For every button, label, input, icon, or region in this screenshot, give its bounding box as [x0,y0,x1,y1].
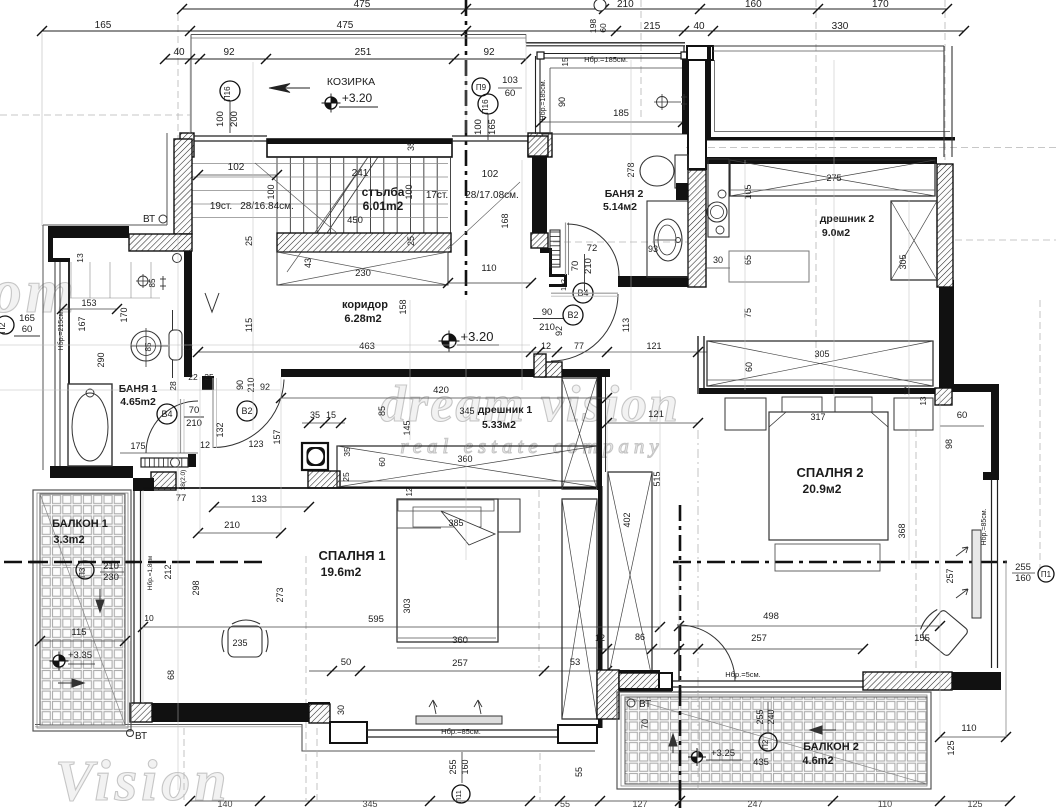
bath2 door B4 leaf and arc [565,223,567,276]
wall stair left base [129,234,192,251]
svg-text:28/17.08см.: 28/17.08см. [465,190,519,201]
bath2 left window [535,56,537,134]
spalnya2 bottom right wall [863,672,952,690]
grid axis lines [177,14,179,232]
stair right wall [532,156,547,234]
bath2 top wall [526,42,685,44]
svg-text:90: 90 [235,380,245,390]
svg-text:198: 198 [588,19,598,33]
canopy outline [191,34,526,36]
svg-text:Нбр.=185см.: Нбр.=185см. [584,55,628,64]
svg-text:60: 60 [505,88,516,99]
svg-text:ВТ: ВТ [143,214,155,225]
closet B [562,499,597,719]
svg-text:305: 305 [814,349,829,359]
B2 label dreshnik1 [237,401,257,421]
plumbing symbol bath1 [138,276,148,286]
hatch block under shaft [308,471,340,488]
bath1 left window [54,262,56,466]
svg-text:98: 98 [944,439,954,449]
svg-text:210: 210 [539,322,555,333]
wall stair left pier [174,139,192,234]
svg-text:255: 255 [1015,562,1031,573]
spalnya2 bottom-left walls [600,670,660,673]
svg-text:12: 12 [595,633,605,643]
corridor dim 463 [198,351,531,353]
svg-text:60: 60 [22,324,33,335]
svg-text:123: 123 [248,439,263,449]
hall wall piece [534,354,546,377]
svg-text:дрешник 2: дрешник 2 [820,213,875,225]
svg-text:157: 157 [272,429,282,444]
svg-text:П2: П2 [761,739,770,750]
bath2 faucet symbol [657,97,668,108]
bath2 right wall lower hatch [688,170,706,287]
B2 door label hall [563,305,583,325]
svg-text:133: 133 [251,494,267,505]
spalnya2 balcony door [677,624,681,626]
svg-text:127: 127 [632,799,647,808]
svg-text:85: 85 [377,406,387,416]
svg-text:75: 75 [743,308,753,318]
under-stair box [277,252,448,285]
svg-text:П2: П2 [0,322,7,333]
svg-text:170: 170 [872,0,889,10]
bath2 fixtures [640,156,674,186]
svg-text:Нбр.=85см.: Нбр.=85см. [441,727,481,736]
svg-text:om: om [0,258,78,326]
svg-text:20.9м2: 20.9м2 [803,482,842,496]
section line A vertical [465,0,468,296]
svg-text:241: 241 [352,168,369,179]
svg-text:255: 255 [448,759,458,774]
witness lines [252,62,254,430]
wall pier right of window [528,133,552,157]
section line B vertical [679,505,682,808]
closet C [608,472,652,678]
svg-text:5.14м2: 5.14м2 [603,201,637,213]
svg-text:345: 345 [459,406,474,416]
svg-text:КОЗИРКА: КОЗИРКА [327,76,375,88]
balcony1 right arrow [58,679,84,687]
svg-text:В4: В4 [161,409,172,419]
svg-text:В2: В2 [567,310,578,320]
bath2 window top [544,53,681,55]
svg-text:200: 200 [229,111,240,127]
svg-text:102: 102 [561,279,568,291]
balcony2 border [617,692,931,789]
dreshnik2 left wall lower [697,336,699,394]
svg-text:85: 85 [144,342,153,351]
svg-text:475: 475 [337,20,354,31]
balcony2 left arrow [810,726,836,734]
watermark dream vision [0,258,680,808]
column bath1 corner [188,454,196,467]
svg-text:19ст.: 19ст. [210,201,232,212]
svg-text:СПАЛНЯ 2: СПАЛНЯ 2 [797,465,864,480]
door arc bath1 B4 [146,401,198,453]
svg-text:22: 22 [188,372,198,382]
svg-text:175: 175 [130,441,145,451]
section line B over balcony [679,690,682,808]
svg-text:165: 165 [487,119,498,135]
wall band right of bath2 [707,137,955,141]
svg-text:60: 60 [377,457,387,467]
spalnya2 bed [769,412,888,540]
stair landing wall [277,233,451,252]
svg-text:290: 290 [96,352,106,367]
dreshnik1 closet [337,446,597,487]
spalnya1 bottom walls [152,703,309,722]
dreshnik1 right wall [597,369,607,377]
stair direction line [287,160,366,272]
П9 mark [472,78,490,96]
svg-text:360: 360 [457,454,472,464]
svg-text:132: 132 [215,422,225,437]
spalnya1 nightstand [498,499,520,532]
shelf lines bath1 top [70,262,72,298]
svg-text:102: 102 [482,169,499,180]
bottom dim line [190,800,1010,802]
svg-text:257: 257 [751,633,767,644]
svg-text:86: 86 [635,632,645,642]
svg-text:60: 60 [598,23,608,33]
svg-text:298: 298 [191,580,201,595]
svg-text:160: 160 [745,0,762,10]
svg-text:115: 115 [244,318,254,332]
witness dashed spalnya1 right [538,490,540,668]
hatch pier bath1 bottom [151,472,176,490]
closet A [562,378,597,489]
svg-text:Нбр.=215см.: Нбр.=215см. [57,309,65,350]
svg-text:БАНЯ 1: БАНЯ 1 [119,383,158,395]
svg-text:Нбр.=185см.: Нбр.=185см. [539,79,547,120]
svg-text:345: 345 [362,799,377,808]
center line horizontal right [673,561,1012,564]
canopy arrow [269,84,290,93]
svg-text:100: 100 [266,184,276,199]
svg-text:165: 165 [95,20,112,31]
svg-text:230: 230 [103,572,119,583]
svg-text:125: 125 [967,799,982,808]
svg-text:ВТ: ВТ [639,699,651,710]
svg-text:4.65m2: 4.65m2 [120,396,156,408]
svg-text:498: 498 [763,611,779,622]
svg-text:385: 385 [448,518,463,528]
svg-text:273: 273 [275,587,285,602]
svg-text:Нбр.=1,8см: Нбр.=1,8см [146,555,154,590]
bath2 right wall upper [688,50,706,169]
radiator bath1 [141,458,188,467]
dreshnik2 washer box [708,159,729,237]
bath2 top-right pier [687,46,713,60]
svg-text:92: 92 [223,47,235,58]
spalnya1 left window to balcony [133,491,135,703]
dreshnik2 right wall hatch [937,164,953,287]
balcony1 down arrow [96,589,104,612]
svg-text:77: 77 [176,493,187,504]
svg-text:595: 595 [368,614,384,625]
svg-text:6.01m2: 6.01m2 [363,199,404,213]
wall corridor-bath1 [184,251,192,377]
spalnya1 radiator [416,716,502,724]
svg-text:435: 435 [753,757,769,768]
dreshnik2 shelf [729,251,809,282]
B4 door label bath1 [157,404,177,424]
svg-text:П1: П1 [1041,570,1052,579]
svg-text:317: 317 [810,412,825,422]
svg-text:72: 72 [587,243,598,254]
top right outline [943,46,945,157]
svg-text:13: 13 [75,253,85,263]
BT mark balcony2 [627,699,635,707]
spalnya2 top wall [699,388,940,394]
svg-text:Нбр.=5см.: Нбр.=5см. [725,670,761,679]
bottom grid dashes [183,728,185,800]
svg-text:15: 15 [561,57,570,66]
svg-text:25: 25 [341,472,351,482]
svg-text:В2: В2 [241,406,252,416]
stair break line [317,157,368,233]
svg-text:235: 235 [232,638,247,648]
dreshnik2 tall closet [891,201,937,280]
svg-text:170: 170 [119,307,129,322]
svg-text:12: 12 [405,487,414,496]
svg-text:35: 35 [342,447,352,457]
svg-text:140: 140 [217,799,232,808]
svg-text:153: 153 [81,298,96,308]
svg-text:40: 40 [693,21,705,32]
svg-text:113: 113 [621,318,631,332]
dreshnik1 top wall [281,369,610,377]
svg-text:110: 110 [481,263,496,274]
svg-text:90: 90 [542,307,553,318]
svg-text:100: 100 [404,184,414,199]
svg-text:П9: П9 [476,83,487,92]
svg-text:115: 115 [71,627,86,638]
building outline left [166,133,168,225]
svg-text:19.6m2: 19.6m2 [321,565,362,579]
washbasin bath1 [131,331,161,361]
svg-text:5.33м2: 5.33м2 [482,419,516,431]
svg-text:40: 40 [173,47,185,58]
bath2 left pier lower [531,233,548,248]
hall dims [531,351,707,353]
top dim line 1 [182,8,947,10]
svg-text:СПАЛНЯ 1: СПАЛНЯ 1 [319,548,386,563]
svg-text:60: 60 [957,410,968,421]
svg-text:257: 257 [945,568,955,583]
svg-text:92: 92 [260,382,270,392]
svg-text:10: 10 [144,613,154,623]
svg-text:дрешник 1: дрешник 1 [478,404,533,416]
svg-text:85: 85 [148,278,157,287]
dreshnik1 hatch pier [541,362,562,377]
balcony2 tiles [625,697,927,784]
svg-text:92: 92 [554,326,564,336]
BT mark balcony1 [127,730,134,737]
svg-text:П3: П3 [78,567,87,578]
svg-text:3.3m2: 3.3m2 [53,534,84,546]
svg-text:463: 463 [359,341,375,352]
wall bath1 top [48,226,129,238]
center line over balcony1 [30,561,135,564]
balcony1 border [33,490,131,731]
svg-text:100: 100 [473,119,484,135]
pipe circle on wall [173,254,182,263]
balcony2 diagonal [625,697,927,784]
bath2 bottom wall [618,276,689,287]
svg-text:35: 35 [406,141,416,151]
svg-text:167: 167 [77,316,87,331]
svg-text:160: 160 [460,759,470,774]
svg-text:+3.25: +3.25 [711,748,735,759]
svg-text:160: 160 [1015,573,1031,584]
door B2 spalnya1 arc [214,380,285,448]
svg-text:28/16.84см.: 28/16.84см. [240,201,294,212]
balcony1 level mark [53,655,65,667]
svg-text:103: 103 [502,75,518,86]
spalnya1 top wall line [143,487,597,489]
spalnya2 bottom window [672,680,863,682]
svg-text:110: 110 [961,723,976,734]
spalnya2 right window [991,480,993,668]
svg-text:240: 240 [766,709,776,724]
svg-text:стълба: стълба [362,185,405,199]
stair flight horizontal treads [192,163,448,165]
svg-text:257: 257 [452,658,468,669]
wall bath1 left upper [48,233,53,261]
canopy level mark [325,97,337,109]
svg-text:9.0м2: 9.0м2 [822,227,850,239]
svg-text:35: 35 [310,410,320,420]
dreshnik2 top wall [707,157,937,164]
svg-text:210: 210 [246,377,256,392]
stair treads [276,157,278,233]
svg-text:102: 102 [228,162,245,173]
top dim line 3 [165,58,526,60]
svg-text:402: 402 [622,512,632,527]
svg-text:168: 168 [500,213,510,228]
svg-text:121: 121 [646,341,661,351]
svg-text:БАЛКОН 2: БАЛКОН 2 [803,741,859,753]
pier bath1 door [202,376,214,390]
svg-text:6.28m2: 6.28m2 [344,313,381,325]
B4 door label bath2 [573,283,593,303]
svg-text:215: 215 [644,21,661,32]
spalnya1 bed [397,499,498,642]
svg-text:420: 420 [433,385,449,396]
terrace outline below spalnya1 [35,725,595,752]
window stair left [194,135,267,137]
pier balcony1 top [133,478,154,491]
svg-text:25: 25 [406,236,416,246]
svg-text:4.6m2: 4.6m2 [802,755,833,767]
svg-text:368: 368 [897,523,907,538]
svg-text:125: 125 [946,740,956,755]
svg-text:П16: П16 [481,99,490,114]
svg-text:121: 121 [648,409,664,420]
shaft symbol [302,443,328,470]
bath2 niche lines [550,67,683,69]
svg-text:БАНЯ 2: БАНЯ 2 [605,188,644,200]
svg-text:70: 70 [189,405,200,416]
svg-text:230: 230 [355,268,371,279]
svg-text:12: 12 [902,387,911,395]
svg-text:12: 12 [200,440,210,450]
svg-text:12: 12 [541,341,551,351]
svg-text:43: 43 [303,258,313,268]
svg-text:155: 155 [914,633,930,644]
window arrows [429,700,437,714]
wall bath1 bottom [50,466,133,478]
svg-text:450: 450 [347,215,363,226]
stair leader lines [255,163,337,233]
svg-text:70: 70 [570,261,581,272]
svg-text:68: 68 [166,670,176,680]
svg-text:145: 145 [402,420,412,435]
svg-text:+3.20: +3.20 [461,329,494,344]
balcony1 tiles [40,494,125,725]
svg-text:210: 210 [186,418,202,429]
svg-text:251: 251 [355,47,372,58]
svg-text:90: 90 [557,97,567,107]
dreshnik2 bottom closet [707,341,933,386]
svg-text:165: 165 [19,313,35,324]
dreshnik2 top closet [730,160,935,196]
svg-text:93: 93 [648,244,658,254]
svg-text:П16: П16 [223,86,232,101]
corridor level mark [442,334,456,348]
svg-text:30: 30 [713,255,723,265]
svg-text:77: 77 [574,341,584,351]
svg-text:65: 65 [743,255,753,265]
svg-text:255: 255 [755,709,765,724]
svg-text:185: 185 [613,108,629,119]
svg-text:70: 70 [640,719,650,729]
center line horizontal left [4,561,262,564]
svg-text:303: 303 [402,598,412,613]
balcony2 up arrow [669,734,677,753]
door B2 hall arc [551,294,618,361]
spalnya2 right wall bay [939,280,954,388]
svg-text:92: 92 [483,47,495,58]
П16 mark [220,81,240,101]
svg-text:100: 100 [215,111,226,127]
svg-text:55: 55 [574,767,584,777]
balcony1 diagonal [40,494,125,725]
svg-text:ВТ: ВТ [135,731,147,742]
svg-text:360: 360 [452,635,468,646]
svg-text:305: 305 [898,254,908,269]
svg-text:28: 28 [168,381,178,391]
svg-text:60: 60 [744,362,754,372]
bath2 hatch pier left [528,136,548,156]
svg-text:17ст.: 17ст. [426,190,448,201]
svg-text:25: 25 [244,236,254,246]
svg-text:210: 210 [617,0,634,10]
svg-text:15: 15 [326,410,336,420]
svg-text:Нбр.=85см.: Нбр.=85см. [980,508,988,545]
svg-text:158: 158 [398,299,408,314]
spalnya2 nightstands [725,398,766,430]
top dim line 2 [42,30,964,32]
svg-text:212: 212 [163,564,173,579]
spalnya1 chair [228,626,262,657]
svg-text:50: 50 [341,657,352,668]
spalnya2 armchair [916,605,969,657]
spalnya1 window bottom [367,729,558,731]
